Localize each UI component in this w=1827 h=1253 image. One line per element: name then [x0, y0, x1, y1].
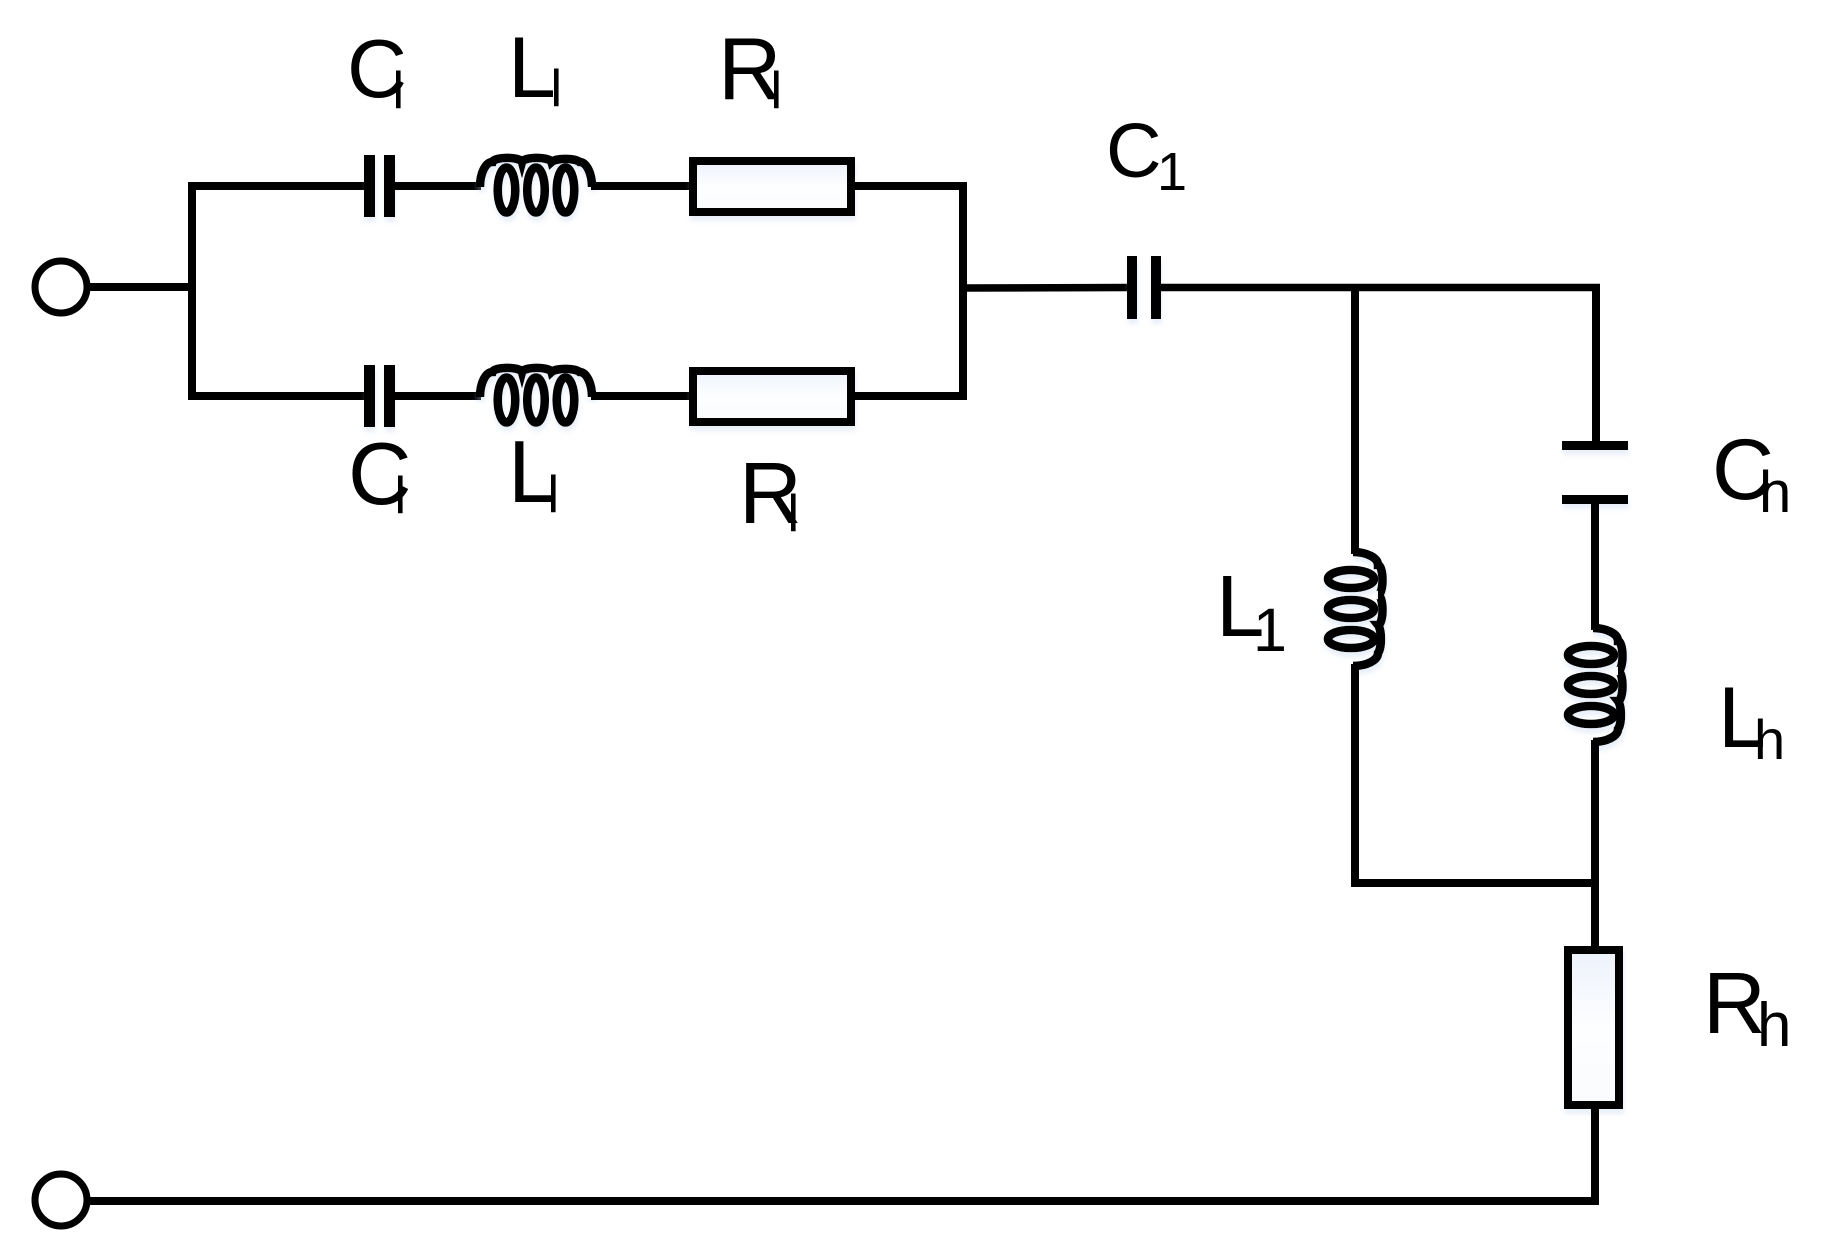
label Ll (bottom) — [508, 422, 559, 524]
wire L1 to bottom junction — [1351, 664, 1359, 887]
svg-text:l: l — [393, 62, 405, 120]
label L1 — [1216, 558, 1287, 664]
inductor Ll (top branch) — [480, 158, 592, 213]
label Cl (bottom) — [348, 424, 412, 525]
wire top branch left — [192, 182, 365, 190]
svg-text:l: l — [788, 485, 800, 543]
label Ll (top) — [508, 20, 562, 118]
wire C1 to node A and right corner — [1161, 284, 1600, 292]
svg-text:h: h — [1757, 991, 1791, 1060]
label Rl (top) — [718, 19, 782, 120]
wire bottom junction horizontal — [1351, 879, 1599, 887]
label Cl (top) — [347, 22, 407, 120]
label Ch — [1712, 422, 1791, 525]
wire terminal T1 to left junction — [90, 283, 196, 291]
svg-text:1: 1 — [1253, 596, 1287, 664]
wire bottom branch, Ll to Rl — [591, 392, 694, 400]
terminal T2 (bottom left) — [35, 1174, 87, 1226]
svg-text:h: h — [1754, 708, 1785, 771]
wire bottom branch right — [850, 392, 966, 400]
wire bottom rail — [90, 1197, 1599, 1205]
wire top branch right — [850, 182, 966, 190]
capacitor C1 — [1127, 256, 1161, 319]
label Lh — [1718, 670, 1785, 771]
wire Ch to Lh — [1591, 503, 1599, 630]
terminal T1 (input, top left) — [35, 261, 87, 313]
label C1 — [1106, 108, 1187, 202]
svg-text:l: l — [548, 466, 560, 524]
svg-text:1: 1 — [1157, 142, 1187, 202]
wire top branch, Ll to Rl — [591, 182, 694, 190]
node A branch: wire down to L1 — [1351, 287, 1359, 554]
wire bottom branch, Cl to Ll — [394, 392, 481, 400]
svg-text:L: L — [508, 20, 556, 116]
resistor Rh — [1568, 950, 1619, 1105]
label Rl (bottom) — [739, 445, 802, 543]
capacitor Cl (bottom branch) — [364, 365, 395, 427]
wire output stub to C1 — [963, 284, 1128, 292]
wire right branch down to Ch — [1592, 287, 1600, 443]
svg-text:l: l — [771, 62, 783, 120]
capacitor Ch — [1562, 441, 1628, 504]
resistor Rl (top branch) — [693, 161, 851, 212]
inductor Lh — [1568, 628, 1623, 742]
wire Rh to bottom rail — [1591, 1105, 1599, 1201]
wire left vertical bus of parallel block — [188, 182, 196, 400]
svg-text:l: l — [395, 467, 407, 525]
inductor Ll (bottom branch) — [480, 368, 592, 423]
resistor Rl (bottom branch) — [693, 371, 851, 422]
svg-text:C: C — [1106, 108, 1162, 194]
wire right vertical bus of parallel block — [959, 182, 967, 400]
label Rh — [1703, 955, 1791, 1060]
inductor L1 — [1328, 552, 1383, 666]
svg-text:h: h — [1759, 460, 1791, 525]
wire bottom branch left — [192, 392, 365, 400]
wire Lh to junction and down to Rh — [1591, 740, 1599, 951]
wire top branch, Cl to Ll — [394, 182, 481, 190]
svg-text:l: l — [551, 60, 563, 118]
capacitor Cl (top branch) — [364, 155, 395, 217]
